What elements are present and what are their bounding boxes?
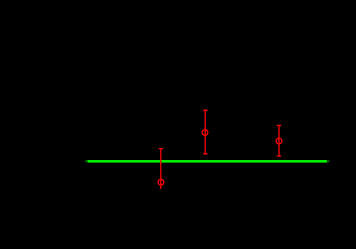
data point 1 error bar [159, 149, 164, 189]
green baseline right end fade [327, 160, 329, 162]
data point 3 error bar [277, 125, 281, 156]
green baseline [88, 160, 327, 163]
data point 2 error bar [203, 110, 208, 154]
green baseline left end fade [85, 160, 87, 162]
data point 2 marker [202, 130, 208, 136]
data point 3 marker [276, 138, 282, 144]
data point 1 marker [158, 179, 164, 185]
